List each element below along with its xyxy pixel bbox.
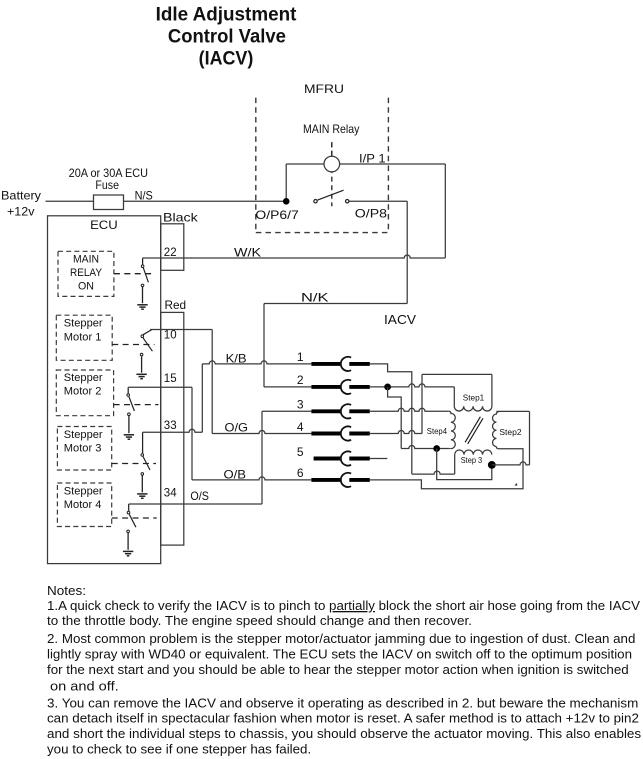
Stepper Motor 2 block (dashed) (56, 370, 113, 416)
Stepper Motor 3 block (dashed) (57, 427, 111, 471)
svg-text:K/B: K/B (226, 351, 247, 365)
svg-text:to the throttle body. The engi: to the throttle body. The engine speed s… (47, 613, 472, 628)
svg-text:6: 6 (297, 466, 304, 480)
ECU box U1 (48, 216, 161, 564)
wire pin3 to Step4 top (370, 408, 449, 411)
svg-text:Notes:: Notes: (47, 583, 86, 598)
wire pin2 rail with junction (370, 384, 455, 387)
svg-text:lightly spray with WD40 or equ: lightly spray with WD40 or equivalent. T… (47, 646, 632, 661)
svg-text:N/S: N/S (135, 189, 153, 203)
stray corner mark (515, 484, 517, 486)
rotor symbol (465, 417, 480, 443)
svg-text:ECU: ECU (90, 218, 118, 232)
wire pin1 to Step3 left (370, 364, 412, 474)
svg-text:for the next start and you sho: for the next start and you should be abl… (47, 662, 629, 677)
svg-text:Red: Red (165, 298, 187, 312)
svg-text:5: 5 (297, 445, 304, 459)
svg-text:Step 3: Step 3 (461, 456, 483, 465)
switch stepper 4 driver (128, 504, 130, 511)
svg-text:Motor 3: Motor 3 (64, 443, 102, 455)
svg-text:Step2: Step2 (499, 428, 522, 437)
svg-text:and short the individual steps: and short the individual steps to chassi… (47, 726, 642, 741)
svg-text:O/G: O/G (225, 420, 249, 434)
IACV pin 2 connector bars and contact (311, 385, 341, 389)
wire IACV pin3 left (262, 410, 311, 412)
svg-text:1.A quick check to verify the: 1.A quick check to verify the IACV is to… (47, 598, 640, 613)
svg-text:4: 4 (297, 420, 304, 434)
wire pin10 vertical down to O/G (211, 330, 213, 434)
svg-text:can detach itself in spectacul: can detach itself in spectacular fashion… (47, 711, 639, 726)
svg-text:3. You can remove the IACV and: 3. You can remove the IACV and observe i… (47, 695, 638, 710)
svg-text:ON: ON (78, 281, 94, 293)
Stepper Motor 3 control dashed line (112, 463, 156, 465)
junction node on pin2 rail (384, 384, 391, 391)
junction node Step3 right (488, 461, 496, 469)
svg-text:Motor 2: Motor 2 (64, 386, 102, 398)
inductor Step3 winding (455, 450, 492, 455)
svg-text:O/P6/7: O/P6/7 (255, 208, 299, 222)
wire pin15 horizontal (128, 386, 192, 388)
wire common rail drop to Step3 right (437, 449, 492, 480)
connector housing Red pins 10,15,33,34 (161, 312, 184, 545)
svg-text:MAIN: MAIN (73, 253, 99, 265)
svg-text:34: 34 (164, 485, 177, 499)
Stepper Motor 1 block (dashed) (56, 315, 112, 360)
svg-text:Black: Black (163, 211, 199, 225)
MAIN RELAY ON control dashed line (114, 273, 155, 275)
svg-text:Stepper: Stepper (64, 372, 103, 384)
svg-text:Stepper: Stepper (64, 318, 103, 330)
svg-text:+12v: +12v (7, 205, 35, 219)
wire pin5 stub (not connected) (370, 458, 388, 460)
wire O/S vertical up to IACV pin3 (261, 411, 263, 504)
inductor Step2 winding (493, 411, 500, 446)
junction node O/P6/7 (283, 198, 290, 205)
svg-text:1: 1 (297, 350, 304, 364)
wire IACV pin2 left (264, 386, 311, 388)
svg-text:2: 2 (297, 373, 304, 387)
wire pin15 vertical down to O/B (191, 387, 193, 480)
svg-text:O/B: O/B (224, 467, 247, 481)
svg-text:O/P8: O/P8 (355, 207, 388, 221)
switch MAIN relay driver (142, 258, 144, 265)
relay actuation dashed link (331, 142, 333, 206)
svg-text:I/P 1: I/P 1 (359, 152, 386, 166)
svg-text:Control Valve: Control Valve (168, 27, 286, 48)
svg-text:MAIN Relay: MAIN Relay (303, 122, 360, 136)
svg-text:22: 22 (164, 245, 177, 259)
relay coil K1 (324, 156, 340, 172)
svg-text:3: 3 (297, 398, 304, 412)
svg-text:Motor 1: Motor 1 (64, 332, 102, 344)
IACV pin 4 connector bars and contact (311, 432, 341, 436)
svg-text:on and off.: on and off. (50, 679, 119, 694)
switch stepper 3 driver (142, 432, 144, 453)
svg-text:15: 15 (164, 371, 177, 385)
svg-text:Stepper: Stepper (64, 429, 103, 441)
wire pin33 vertical up to K/B (201, 364, 203, 432)
svg-text:33: 33 (164, 418, 177, 432)
svg-text:N/K: N/K (301, 291, 329, 305)
IACV pin 3 connector bars and contact (311, 409, 341, 413)
svg-text:Idle Adjustment: Idle Adjustment (156, 5, 297, 26)
svg-text:2. Most common problem is the: 2. Most common problem is the stepper mo… (47, 631, 635, 646)
svg-text:Motor 4: Motor 4 (64, 499, 102, 511)
wire Step3 right to Step2 top (492, 462, 530, 465)
inductor Step4 winding (449, 411, 456, 448)
wire I/P 1 coil wire (286, 163, 445, 165)
wire battery to fuse (46, 200, 94, 202)
Stepper Motor 4 control dashed line (112, 517, 157, 519)
svg-text:Step1: Step1 (463, 393, 485, 402)
svg-text:Stepper: Stepper (64, 485, 103, 497)
svg-text:RELAY: RELAY (70, 267, 103, 279)
IACV pin 6 connector bars and contact (311, 478, 341, 482)
svg-text:IACV: IACV (384, 313, 417, 327)
svg-text:MFRU: MFRU (304, 82, 344, 96)
wire coil to battery junction (285, 164, 287, 201)
svg-text:O/S: O/S (190, 489, 209, 503)
svg-text:you to check to see if one ste: you to check to see if one stepper has f… (47, 742, 311, 757)
inductor Step1 winding (454, 406, 492, 411)
switch stepper 1 driver (143, 330, 152, 335)
wire N/K vertical to IACV pin2 (263, 304, 265, 387)
switch stepper 2 driver (127, 387, 129, 393)
wire pin4 to Step1 right (370, 431, 422, 434)
Stepper Motor 2 control dashed line (114, 404, 159, 406)
wire O/P8 vertical down to N/K (406, 201, 408, 303)
wire pin2 rail down to Step1 left (453, 387, 455, 406)
wire pin10 horizontal (150, 329, 212, 331)
svg-text:Battery: Battery (1, 189, 41, 203)
relay switch S1 (314, 200, 317, 203)
wire pin6 to Step2 bottom (370, 449, 523, 489)
IACV pin 1 connector bars and contact (311, 362, 341, 366)
Stepper Motor 4 block (dashed) (57, 483, 111, 527)
svg-text:Step4: Step4 (427, 427, 448, 436)
Stepper Motor 1 control dashed line (112, 344, 154, 346)
junction node common rail (433, 445, 440, 452)
wire pin33 horizontal with hop (143, 429, 203, 432)
svg-text:Fuse: Fuse (95, 178, 119, 192)
connector housing Black pin 22 (161, 224, 184, 270)
svg-text:(IACV): (IACV) (199, 49, 254, 70)
IACV pin 5 connector bars and contact (314, 457, 342, 461)
wire I/P1 vertical down to W/K (444, 164, 446, 258)
MAIN RELAY ON block (dashed) (58, 251, 114, 296)
wire pin2 branch to common rail (388, 387, 402, 449)
